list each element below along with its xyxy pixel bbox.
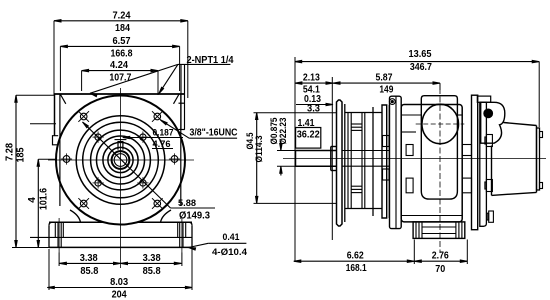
shaft circle (112, 151, 130, 169)
right side port boss (179, 102, 185, 104)
svg-text:3/8"-16UNC: 3/8"-16UNC (190, 128, 238, 139)
shaft shoulder collar (330, 147, 332, 171)
base right edge (189, 222, 192, 225)
foot ledge right (137, 221, 192, 223)
port circle (422, 104, 459, 144)
port circle horizontal centerline (416, 123, 465, 125)
svg-text:185: 185 (16, 147, 27, 162)
motor terminal nut bottom (486, 180, 492, 192)
pilot extension line top (254, 112, 337, 114)
port bracket plate (390, 96, 402, 228)
svg-text:70: 70 (435, 264, 445, 275)
left side port boss tab (53, 136, 59, 145)
bottom extension line (12, 247, 49, 249)
end cap nub bottom (540, 183, 543, 189)
svg-text:5.88: 5.88 (178, 198, 196, 209)
right side to foot fillet (161, 210, 172, 222)
pilot diameter dim line (256, 113, 258, 204)
spline fin verticals (361, 113, 363, 209)
svg-text:6.62: 6.62 (347, 251, 364, 262)
bearing snout bottom edge (345, 208, 382, 210)
svg-text:2.13: 2.13 (303, 73, 320, 84)
top pivot bolt nut (484, 109, 493, 118)
svg-text:85.8: 85.8 (143, 266, 161, 277)
port boss pad with rounded bottom pocket (421, 96, 457, 199)
pilot circle (76, 116, 165, 205)
label 5.88/D149.3 with diagonal leader (83, 122, 171, 208)
housing outer left side (54, 94, 56, 136)
svg-text:107.7: 107.7 (109, 72, 131, 83)
svg-text:13.65: 13.65 (409, 49, 432, 60)
dimension 4/101.6 left vertical (37, 159, 39, 247)
foot rib lines right (455, 222, 457, 239)
body inner tab left bottom (406, 178, 413, 193)
seal circle (108, 147, 133, 172)
svg-text:0.187: 0.187 (153, 128, 174, 139)
bearing snout top edge (345, 112, 382, 114)
left side to foot fillet (70, 210, 81, 222)
circle 101.6 top extension tick (30, 123, 56, 125)
gear housing circle (91, 130, 151, 190)
dimension 6.57/166.8 (60, 45, 179, 47)
pilot extension line bottom (254, 202, 337, 204)
svg-text:346.7: 346.7 (410, 62, 432, 73)
tapped hole T1 with X mark (80, 113, 87, 120)
body inner tab left top (406, 145, 413, 156)
bolt hole B2 with crosshair (140, 134, 146, 140)
bolt hole B3 with crosshair (95, 180, 101, 186)
housing top edge (55, 93, 185, 95)
svg-text:0.41: 0.41 (223, 232, 241, 243)
mounting flange plate (337, 100, 343, 226)
right foot slot (177, 222, 179, 237)
svg-text:166.8: 166.8 (111, 49, 133, 60)
shaft end face extension line (294, 57, 296, 262)
body top rib line left (401, 114, 421, 116)
tapped hole T4 with X mark (154, 200, 161, 207)
svg-text:101.6: 101.6 (38, 188, 49, 210)
motor housing tapered shell (504, 123, 537, 126)
flange back face line (344, 104, 346, 222)
body nut tab right top (462, 145, 471, 156)
right foot slot centerline (181, 218, 183, 253)
left inner corner chamfer (60, 94, 66, 104)
left view vertical centerline (120, 88, 122, 268)
bolt hole B1 with crosshair (95, 134, 101, 140)
right inner corner chamfer (174, 94, 180, 104)
svg-text:Ø149.3: Ø149.3 (179, 211, 210, 222)
dimension 8.03/204 bottom (47, 287, 192, 289)
right foot pass-through lines (179, 222, 181, 247)
spline fins bottom (351, 185, 362, 187)
end cap nub top (540, 132, 543, 138)
base bottom line (49, 246, 192, 248)
snout step verticals (347, 113, 349, 209)
right view shaft centerline (283, 157, 546, 159)
svg-text:168.1: 168.1 (346, 263, 367, 274)
svg-text:8.03: 8.03 (110, 277, 128, 288)
gear shaft lines through housing (342, 150, 390, 152)
svg-text:2.76: 2.76 (432, 251, 449, 262)
tapped hole T2 with X mark (154, 113, 161, 120)
dimension 2.76/70 bottom (414, 260, 467, 262)
svg-text:7.24: 7.24 (113, 10, 131, 21)
keyway slot on shaft (118, 142, 123, 150)
shaft bore circle (114, 154, 127, 167)
svg-text:184: 184 (115, 23, 130, 34)
label 0.187/4.76 keyway (123, 137, 183, 139)
main body block (401, 105, 462, 222)
housing end plate (372, 107, 374, 216)
side hole S2 with crosshair (171, 156, 178, 163)
svg-text:3.38: 3.38 (143, 253, 161, 264)
dimension 7.24/184 top (54, 20, 188, 22)
port boss side lines from 2-NPT label down (180, 64, 182, 129)
left foot slot (54, 222, 56, 237)
svg-text:4: 4 (27, 197, 38, 203)
svg-text:Ø22.23: Ø22.23 (278, 118, 288, 145)
dimension 6.62/168.1 bottom (294, 260, 415, 262)
dimension 13.65/346.7 top (295, 61, 540, 63)
base mid line (30, 236, 192, 238)
bolt hole B4 with crosshair (140, 180, 146, 186)
right view port vertical centerline (439, 88, 441, 253)
lower shaft end nut (489, 211, 494, 222)
body nut tab right bottom (462, 178, 471, 193)
end plate bolt bottom (383, 169, 390, 180)
flange face extension line (331, 77, 333, 240)
motor end cap (537, 128, 540, 190)
dimension 2.13/54.1 (295, 82, 333, 84)
spline fins top (351, 123, 362, 125)
side hole S1 with crosshair (63, 156, 70, 163)
shaft diameter dim line with arrows (280, 141, 282, 151)
left foot slot centerline (58, 218, 60, 253)
top pivot bracket (481, 102, 505, 143)
base left edge (49, 222, 52, 225)
end plate bolt top (383, 136, 390, 147)
svg-text:Ø114.3: Ø114.3 (254, 136, 264, 163)
left foot pass-through lines (57, 222, 59, 247)
mounting foot block (413, 222, 465, 239)
svg-text:149: 149 (379, 85, 393, 96)
dimension 3.38/85.8 pair (59, 262, 181, 264)
svg-text:204: 204 (112, 290, 127, 300)
svg-text:5.87: 5.87 (376, 73, 393, 84)
rear plate second wall (480, 102, 487, 226)
body bottom inner line (401, 215, 462, 217)
shaft (296, 150, 337, 152)
left view horizontal centerline (48, 159, 194, 161)
rear plate (472, 95, 478, 230)
flange outer circle (56, 96, 185, 225)
pilot step circle (83, 122, 159, 198)
body top rib line right (457, 114, 462, 116)
foot rib lines left (415, 222, 417, 239)
rear plate top tab (477, 96, 490, 102)
bolt boss circle (97, 136, 145, 184)
tapped hole T3 with X mark (80, 200, 87, 207)
housing inner side walls (59, 94, 61, 206)
bracket mid line (395, 96, 397, 228)
bracket ear bolt (389, 99, 395, 105)
svg-text:3.38: 3.38 (80, 253, 98, 264)
dimension 4.24/107.7 (82, 70, 158, 72)
svg-text:7.28: 7.28 (5, 143, 16, 161)
body rib line left 2 (401, 131, 416, 133)
bearing boss circle (103, 142, 138, 177)
svg-text:4-Ø10.4: 4-Ø10.4 (212, 247, 248, 258)
svg-text:6.57: 6.57 (113, 36, 131, 47)
foot ledge left (49, 221, 104, 223)
foot mid lines (422, 226, 456, 228)
svg-text:36.22: 36.22 (297, 130, 320, 141)
svg-text:85.8: 85.8 (80, 266, 98, 277)
motor terminal nut top (486, 135, 492, 147)
dimension 7.28/185 left vertical (15, 95, 17, 247)
svg-text:4.24: 4.24 (110, 60, 128, 71)
dimension 5.87/149 (333, 82, 440, 84)
